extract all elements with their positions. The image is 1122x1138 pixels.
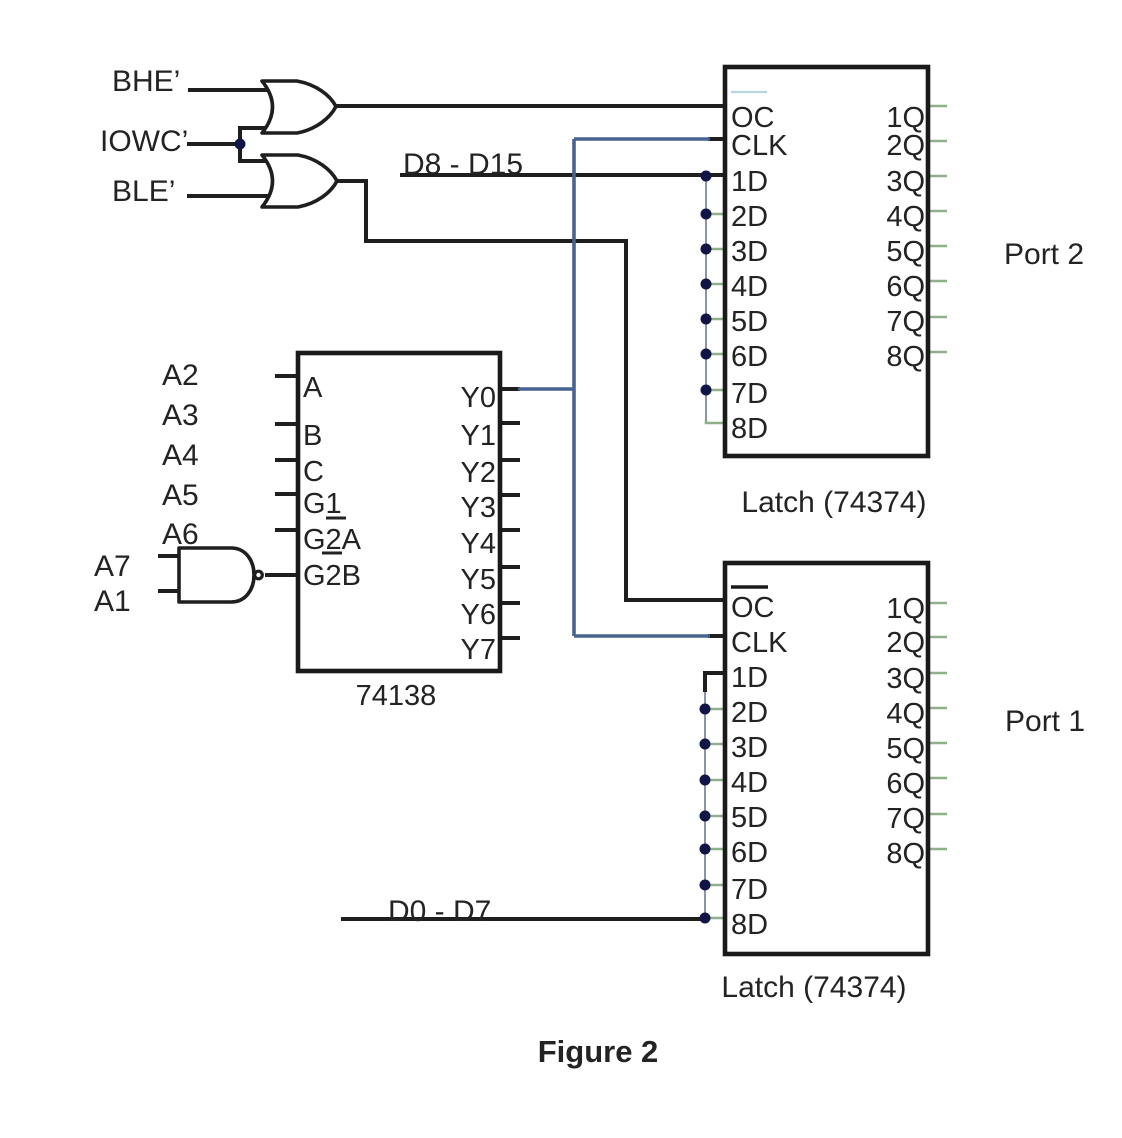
svg-text:OC: OC	[731, 592, 775, 624]
svg-text:CLK: CLK	[731, 130, 788, 162]
svg-text:4D: 4D	[731, 271, 768, 303]
svg-text:5D: 5D	[731, 802, 768, 834]
svg-text:4Q: 4Q	[886, 698, 925, 730]
svg-text:Y5: Y5	[461, 564, 496, 596]
svg-text:8Q: 8Q	[886, 341, 925, 373]
svg-text:IOWC’: IOWC’	[100, 125, 188, 158]
svg-text:D8 - D15: D8 - D15	[403, 148, 523, 181]
svg-text:G1: G1	[303, 488, 342, 520]
svg-text:3D: 3D	[731, 732, 768, 764]
svg-text:Y6: Y6	[461, 599, 496, 631]
svg-text:A3: A3	[162, 399, 199, 432]
svg-text:Port 2: Port 2	[1004, 238, 1084, 271]
svg-text:G2A: G2A	[303, 524, 362, 556]
svg-text:A: A	[303, 372, 323, 404]
svg-text:C: C	[303, 456, 324, 488]
svg-text:A4: A4	[162, 439, 199, 472]
svg-text:BLE’: BLE’	[112, 175, 175, 208]
svg-text:4Q: 4Q	[886, 201, 925, 233]
svg-text:8Q: 8Q	[886, 838, 925, 870]
svg-text:Y7: Y7	[461, 634, 496, 666]
svg-text:5Q: 5Q	[886, 733, 925, 765]
svg-text:Port 1: Port 1	[1005, 705, 1085, 738]
svg-text:1D: 1D	[731, 166, 768, 198]
svg-text:6Q: 6Q	[886, 768, 925, 800]
svg-text:8D: 8D	[731, 909, 768, 941]
svg-text:4D: 4D	[731, 767, 768, 799]
svg-text:G2B: G2B	[303, 560, 361, 592]
svg-text:A2: A2	[162, 359, 199, 392]
svg-text:3Q: 3Q	[886, 166, 925, 198]
svg-text:D0 - D7: D0 - D7	[388, 895, 491, 928]
svg-text:6Q: 6Q	[886, 271, 925, 303]
svg-text:Y2: Y2	[461, 457, 496, 489]
svg-text:A6: A6	[162, 518, 199, 551]
svg-text:7D: 7D	[731, 874, 768, 906]
svg-text:7D: 7D	[731, 378, 768, 410]
svg-text:A7: A7	[94, 550, 131, 583]
svg-text:74138: 74138	[356, 680, 437, 712]
svg-text:Y0: Y0	[461, 382, 496, 414]
svg-text:1Q: 1Q	[886, 593, 925, 625]
svg-text:2Q: 2Q	[886, 627, 925, 659]
svg-text:Latch (74374): Latch (74374)	[721, 971, 906, 1004]
svg-text:8D: 8D	[731, 413, 768, 445]
svg-text:Y1: Y1	[461, 420, 496, 452]
svg-text:A5: A5	[162, 479, 199, 512]
svg-text:3Q: 3Q	[886, 663, 925, 695]
svg-text:3D: 3D	[731, 236, 768, 268]
svg-text:1D: 1D	[731, 662, 768, 694]
svg-text:B: B	[303, 420, 322, 452]
svg-text:Figure 2: Figure 2	[538, 1034, 659, 1069]
svg-text:6D: 6D	[731, 837, 768, 869]
svg-text:Y3: Y3	[461, 492, 496, 524]
svg-text:7Q: 7Q	[886, 803, 925, 835]
svg-text:CLK: CLK	[731, 627, 788, 659]
svg-text:Y4: Y4	[461, 528, 496, 560]
svg-text:7Q: 7Q	[886, 306, 925, 338]
svg-text:6D: 6D	[731, 341, 768, 373]
svg-text:5D: 5D	[731, 306, 768, 338]
svg-text:5Q: 5Q	[886, 236, 925, 268]
svg-text:BHE’: BHE’	[112, 65, 180, 98]
svg-text:Latch (74374): Latch (74374)	[741, 486, 926, 519]
svg-text:A1: A1	[94, 585, 131, 618]
svg-text:2D: 2D	[731, 697, 768, 729]
svg-text:2Q: 2Q	[886, 130, 925, 162]
svg-text:2D: 2D	[731, 201, 768, 233]
